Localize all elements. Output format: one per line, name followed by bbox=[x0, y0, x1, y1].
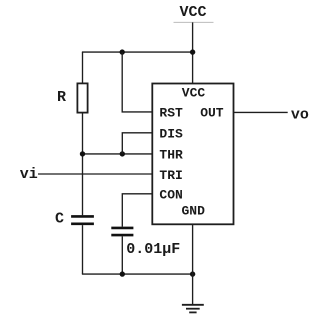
wire THR horizontal bbox=[83, 153, 153, 155]
wire CON branch bbox=[122, 194, 152, 227]
capacitor C2 0.01uF bbox=[111, 228, 180, 258]
power symbol VCC bbox=[174, 4, 214, 23]
svg-text:vo: vo bbox=[291, 106, 309, 123]
svg-text:R: R bbox=[57, 89, 66, 106]
svg-text:GND: GND bbox=[182, 203, 206, 218]
wire VCC rail vertical bbox=[192, 22, 194, 83]
wire GND vertical bbox=[192, 224, 194, 304]
svg-text:CON: CON bbox=[159, 188, 182, 203]
wire RST to VCC branch bbox=[122, 52, 152, 112]
wire capacitor C bottom stub bbox=[82, 225, 84, 274]
op IC U1 555 timer box bbox=[152, 84, 233, 225]
svg-text:TRI: TRI bbox=[159, 168, 182, 183]
wire capacitor C2 bottom stub bbox=[121, 236, 123, 274]
capacitor C bbox=[55, 210, 94, 227]
junction dot (RST branch / top wire) bbox=[120, 49, 125, 54]
wire OUT horizontal bbox=[234, 111, 288, 113]
svg-text:vi: vi bbox=[20, 166, 38, 183]
svg-text:DIS: DIS bbox=[159, 127, 183, 142]
wire DIS branch bbox=[122, 133, 152, 154]
svg-text:C: C bbox=[55, 210, 64, 227]
wire top stub to resistor bbox=[82, 52, 84, 83]
junction dot (VCC vertical / top wire) bbox=[190, 49, 195, 54]
wire top horizontal (VCC to R) bbox=[82, 51, 193, 53]
svg-text:VCC: VCC bbox=[180, 4, 207, 21]
svg-text:RST: RST bbox=[159, 106, 183, 121]
svg-text:0.01µF: 0.01µF bbox=[126, 241, 180, 258]
svg-text:VCC: VCC bbox=[182, 86, 206, 101]
wire bottom horizontal (ground bus) bbox=[82, 273, 193, 275]
wire vi to TRI bbox=[38, 173, 152, 175]
svg-text:THR: THR bbox=[159, 148, 183, 163]
junction dot (THR wire / RC column) bbox=[80, 151, 85, 156]
ground symbol bbox=[182, 305, 204, 313]
junction dot (C2 / ground bus) bbox=[120, 271, 125, 276]
resistor R bbox=[57, 83, 88, 112]
junction dot (THR wire / DIS branch) bbox=[120, 151, 125, 156]
wire resistor bottom to capacitor C bbox=[82, 113, 84, 216]
junction dot (GND vertical / ground bus) bbox=[190, 271, 195, 276]
svg-text:OUT: OUT bbox=[200, 106, 224, 121]
